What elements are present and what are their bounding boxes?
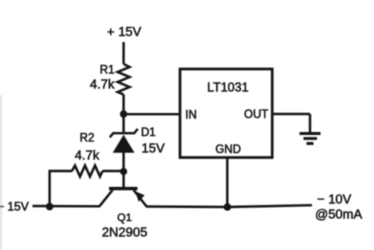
svg-text:R1: R1 bbox=[100, 65, 115, 77]
svg-text:− 10V: − 10V bbox=[317, 192, 352, 207]
svg-text:4.7k: 4.7k bbox=[75, 148, 100, 163]
svg-text:D1: D1 bbox=[141, 127, 156, 139]
svg-text:4.7k: 4.7k bbox=[90, 77, 115, 92]
svg-text:− 15V: − 15V bbox=[0, 200, 29, 214]
svg-text:Q1: Q1 bbox=[117, 212, 132, 224]
svg-text:LT1031: LT1031 bbox=[207, 81, 249, 95]
svg-text:+ 15V: + 15V bbox=[107, 24, 142, 39]
svg-text:OUT: OUT bbox=[244, 109, 268, 121]
svg-text:2N2905: 2N2905 bbox=[102, 224, 148, 239]
svg-text:15V: 15V bbox=[142, 141, 165, 156]
svg-text:@50mA: @50mA bbox=[315, 207, 362, 222]
svg-text:R2: R2 bbox=[80, 133, 95, 145]
svg-text:GND: GND bbox=[215, 144, 241, 156]
svg-text:IN: IN bbox=[185, 109, 197, 121]
